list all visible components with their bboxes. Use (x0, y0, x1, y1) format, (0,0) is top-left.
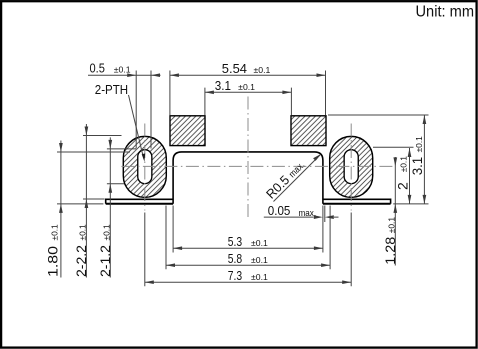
svg-text:±0.1: ±0.1 (251, 239, 268, 248)
dim 5.54 extension lines (170, 71, 326, 116)
dim 5.54 line (170, 74, 326, 76)
svg-text:1.80: 1.80 (45, 246, 61, 277)
svg-text:3.1: 3.1 (215, 79, 231, 93)
svg-text:±0.1: ±0.1 (50, 224, 59, 241)
svg-text:1.28: 1.28 (382, 237, 398, 265)
dim 3.1 right extension lines (328, 115, 429, 204)
right solder pad (291, 116, 326, 146)
dim 0.05 second line (324, 206, 326, 223)
horizontal centerline (121, 165, 395, 167)
dim 2 right line (409, 148, 411, 204)
dim 3.1 top line (205, 91, 292, 93)
dim 0.5 extension lines (136, 71, 151, 149)
dim 5.8 line (166, 264, 330, 266)
dim 0.5 line and arrows (88, 74, 161, 76)
svg-text:5.8: 5.8 (228, 252, 242, 266)
label R0.5 max leader (274, 155, 320, 201)
svg-text:±0.1: ±0.1 (79, 224, 88, 241)
right PTH slot (344, 150, 358, 184)
dim 0.05 line and arrows (264, 216, 339, 218)
svg-text:3.1: 3.1 (409, 157, 425, 176)
dim 2 right extension line (373, 146, 414, 148)
dim 1.28 line and arrows (394, 157, 396, 266)
dim 2-2.2 extension lines (83, 136, 122, 200)
svg-text:max.: max. (299, 208, 317, 219)
dim 7.3 extension lines (145, 213, 351, 287)
svg-text:±0.1: ±0.1 (251, 273, 268, 282)
right terminal centerline (350, 124, 352, 211)
body seating plane bottom right (323, 203, 391, 205)
dim 5.8 extension lines (166, 206, 330, 270)
left terminal (123, 136, 166, 197)
svg-text:2-1.2: 2-1.2 (97, 245, 113, 277)
svg-text:2-PTH: 2-PTH (95, 82, 128, 97)
svg-text:±0.1: ±0.1 (254, 66, 271, 75)
svg-text:7.3: 7.3 (228, 269, 242, 283)
leader 2-PTH (129, 95, 143, 155)
svg-text:±0.1: ±0.1 (103, 224, 112, 241)
dim 1.80 extension lines (57, 152, 130, 204)
svg-text:±0.1: ±0.1 (251, 256, 268, 265)
dim 5.3 extension lines (173, 206, 323, 253)
svg-text:2-2.2: 2-2.2 (73, 245, 89, 277)
right terminal (330, 136, 373, 197)
dim 2-1.2 extension lines (107, 149, 136, 184)
dim 1.80 line and arrows (60, 141, 62, 278)
body seating plane bottom left (106, 203, 173, 205)
dim 2-1.2 line and arrows (109, 137, 111, 277)
svg-text:0.05: 0.05 (268, 204, 291, 218)
svg-text:0.5: 0.5 (90, 62, 105, 76)
left PTH slot (138, 150, 152, 184)
body outline (106, 152, 391, 204)
left solder pad (170, 116, 205, 146)
svg-text:Unit: mm: Unit: mm (416, 4, 475, 21)
dim 5.3 line (173, 247, 323, 249)
svg-text:±0.1: ±0.1 (114, 66, 131, 75)
dim 3.1 right line (423, 115, 425, 204)
dim 2-2.2 line and arrows (85, 124, 87, 278)
svg-text:±0.1: ±0.1 (387, 216, 396, 233)
dim 7.3 line (145, 281, 351, 283)
svg-text:5.54: 5.54 (222, 62, 247, 76)
svg-text:±0.1: ±0.1 (415, 136, 424, 153)
svg-text:5.3: 5.3 (228, 235, 242, 249)
vertical centerline (247, 97, 249, 220)
dim 3.1 top extension lines (205, 88, 292, 115)
left terminal centerline (144, 124, 146, 211)
svg-text:±0.1: ±0.1 (400, 156, 409, 173)
svg-text:2: 2 (394, 182, 410, 190)
svg-text:±0.1: ±0.1 (238, 83, 255, 92)
